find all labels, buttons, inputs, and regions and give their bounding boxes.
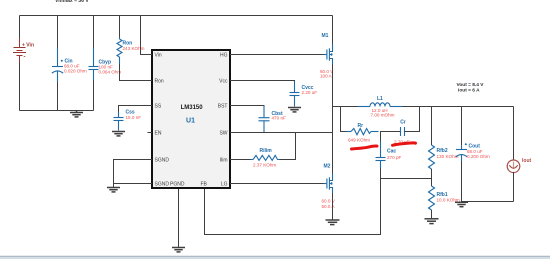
capacitor Cr [401, 127, 405, 136]
svg-text:60.0 V: 60.0 V [322, 199, 336, 204]
wire PGND [178, 189, 180, 247]
resistor Rfb1 [429, 186, 435, 210]
pin stubs [148, 55, 235, 193]
svg-text:Rr: Rr [358, 123, 364, 129]
svg-text:U1: U1 [186, 117, 195, 124]
svg-text:LG: LG [221, 182, 228, 188]
wire M2 source to ground [332, 193, 334, 220]
wire Vcc pin [230, 81, 295, 82]
svg-text:Cac: Cac [387, 149, 396, 155]
svg-text:Ilim: Ilim [220, 157, 228, 163]
svg-text:Ron: Ron [155, 78, 164, 84]
svg-text:2.37 KOhm: 2.37 KOhm [253, 162, 276, 167]
resistor Rfb2 [429, 145, 435, 169]
wire Ron top [119, 16, 121, 38]
svg-text:Rilim: Rilim [260, 148, 273, 154]
svg-text:Iout = 6 A: Iout = 6 A [458, 88, 480, 94]
svg-text:7.00 mOhm: 7.00 mOhm [371, 113, 395, 118]
svg-text:FB: FB [201, 182, 208, 188]
svg-text:Vout = 8.4 V: Vout = 8.4 V [457, 82, 485, 88]
svg-text:HG: HG [220, 52, 228, 58]
ground (SGND) [107, 188, 120, 192]
wire FB node to divider [381, 168, 432, 179]
svg-text:M2: M2 [324, 164, 331, 170]
svg-text:PGND: PGND [170, 182, 185, 188]
svg-text:0.064 Ohm: 0.064 Ohm [99, 69, 122, 74]
capacitor Css [114, 112, 124, 131]
svg-text:Vin: Vin [155, 52, 162, 58]
svg-text:68.0 uF: 68.0 uF [467, 149, 483, 154]
wire battery top [19, 16, 21, 39]
svg-text:50.0 A: 50.0 A [322, 204, 336, 209]
wire M1 drain from rail [332, 16, 334, 45]
ground (Cvcc) [288, 108, 301, 112]
wire SGND pins to ground [114, 160, 153, 188]
capacitor Cbyp [89, 48, 99, 80]
svg-text:Vcc: Vcc [219, 78, 228, 84]
svg-text:2.20 uF: 2.20 uF [302, 90, 318, 95]
wire Rfb1 bottom to ground [431, 210, 433, 218]
svg-text:BST: BST [218, 103, 228, 109]
svg-text:130 KOhm: 130 KOhm [437, 154, 459, 159]
ground (Css) [112, 132, 125, 136]
svg-text:SW: SW [219, 130, 227, 136]
wire BST pin [230, 106, 264, 107]
capacitor Cbst [259, 107, 270, 133]
capacitor Cout (polarized) [456, 145, 467, 161]
wire Rilim to SW [280, 133, 296, 160]
svg-text:+ Vin: + Vin [22, 42, 34, 48]
svg-text:270 pF: 270 pF [387, 155, 401, 160]
wire output bottom [462, 201, 514, 203]
ground (PGND) [172, 248, 185, 252]
svg-text:0.020 Ohm: 0.020 Ohm [64, 69, 87, 74]
svg-text:243 KOhm: 243 KOhm [123, 46, 145, 51]
wire SW node to output rail [333, 106, 359, 108]
svg-text:-: - [24, 55, 26, 61]
ground (Rfb1) [425, 219, 439, 224]
svg-text:Cr: Cr [400, 119, 406, 125]
svg-text:EN: EN [155, 130, 162, 136]
svg-text:L1: L1 [377, 96, 383, 102]
capacitor Cin (polarized) [52, 48, 63, 82]
wire Iout top [513, 107, 515, 161]
marker stroke under 2.70 nF [393, 143, 416, 145]
svg-text:649 KOhm: 649 KOhm [348, 137, 370, 142]
wire M1 source down to SW [332, 64, 334, 133]
wire output rail [402, 106, 514, 108]
resistor Rr [347, 129, 379, 135]
wire Cout bottom [461, 161, 463, 202]
transistor M2 [324, 173, 333, 193]
svg-text:470 nF: 470 nF [272, 116, 286, 121]
wire Cr to corner [405, 107, 420, 132]
resistor Ron [117, 37, 122, 64]
svg-text:SGND: SGND [155, 182, 170, 188]
ground (input rail) [70, 111, 83, 117]
wire ripple branch left [341, 107, 347, 132]
marker stroke under 649 KOhm [352, 146, 378, 149]
wire M2 drain from SW [332, 133, 334, 174]
wire Cbyp vertical [93, 16, 95, 49]
wire Ron to pin [120, 64, 153, 81]
svg-text:Iout: Iout [522, 158, 531, 164]
wire battery bottom [19, 63, 21, 111]
wire Vin pin [141, 16, 153, 55]
wire Rfb2 top [431, 107, 433, 146]
svg-text:SS: SS [155, 103, 162, 109]
resistor Rilim [251, 155, 280, 160]
wire Ilim [230, 159, 251, 161]
wire Cac branch [380, 132, 382, 142]
wire top rail [20, 15, 333, 17]
voltage source Vin [13, 38, 26, 63]
wire Rr to Cr [380, 131, 400, 133]
inductor L1 [358, 103, 402, 107]
svg-text:100 A: 100 A [320, 73, 333, 78]
current source Iout [507, 160, 520, 173]
wire FB [205, 179, 381, 235]
op-amp U1 IC body LM3150 [152, 50, 230, 188]
bottom window band [0, 255, 550, 258]
wire Rfb2 bottom [431, 169, 433, 186]
svg-text:15.0 nF: 15.0 nF [126, 115, 142, 120]
svg-text:Vinmax = 36 V: Vinmax = 36 V [55, 0, 89, 4]
svg-text:0.200 Ohm: 0.200 Ohm [467, 154, 490, 159]
wire LG to M2 gate [230, 183, 324, 185]
wire Cout top [461, 107, 463, 146]
pin labels [155, 52, 228, 187]
wire Cin vertical [57, 16, 59, 49]
capacitor Cvcc [290, 82, 300, 107]
wire bottom-left rail [20, 110, 94, 112]
wire HG to M1 gate [230, 54, 324, 56]
ground (M2) [326, 220, 340, 225]
transistor M1 [324, 44, 333, 64]
wire SS pin [119, 106, 153, 113]
svg-text:SGND: SGND [155, 157, 170, 163]
capacitor Cac [376, 141, 386, 168]
svg-text:M1: M1 [322, 33, 329, 39]
wire Iout bottom [513, 172, 515, 202]
wire SW [230, 132, 333, 134]
svg-text:LM3150: LM3150 [181, 105, 204, 111]
ground (Cout) [455, 202, 468, 206]
